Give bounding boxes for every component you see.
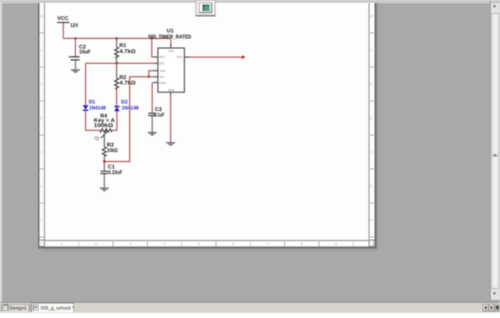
svg-text:C: C xyxy=(40,48,43,52)
pin stub RST xyxy=(153,56,158,58)
right border zone ticks xyxy=(369,33,374,237)
svg-text:CON: CON xyxy=(159,81,166,85)
node C2 top junction xyxy=(74,37,76,39)
sheet outer shadow/edges xyxy=(38,0,376,248)
svg-text:3: 3 xyxy=(129,242,131,246)
ground (C2) xyxy=(71,70,80,74)
svg-text:H: H xyxy=(370,218,373,222)
node R1 top junction xyxy=(115,37,117,39)
svg-text:8: 8 xyxy=(301,242,303,246)
node OUT arrow end xyxy=(242,55,245,59)
svg-text:100kΩ: 100kΩ xyxy=(94,123,114,129)
bottom border zone dividers xyxy=(79,240,353,246)
sheet paper xyxy=(39,0,374,246)
window top strip xyxy=(0,0,500,3)
node RST junction xyxy=(151,37,153,39)
pin stub THR xyxy=(153,70,158,72)
pin stub CON xyxy=(153,82,158,84)
wire VCC pin xyxy=(170,38,172,43)
left border zone letters xyxy=(40,14,43,222)
wire TRI net: THR jog xyxy=(149,71,153,77)
svg-text:9: 9 xyxy=(335,242,337,246)
svg-text:TRI: TRI xyxy=(159,75,164,79)
svg-text:D: D xyxy=(370,82,373,86)
pin stub OUT xyxy=(184,56,190,58)
wire CON to C3 xyxy=(151,83,153,114)
svg-text:555_g_schock *: 555_g_schock * xyxy=(41,306,75,311)
capacitor C1 xyxy=(101,162,123,188)
tab Design1 xyxy=(1,304,29,311)
resistor R2 xyxy=(115,63,137,89)
svg-text:10uF: 10uF xyxy=(79,49,91,55)
svg-text:10kΩ: 10kΩ xyxy=(107,148,118,154)
wire C2 stub xyxy=(74,38,76,56)
node DIS/R1/R2 junction xyxy=(115,62,117,64)
svg-text:H: H xyxy=(40,218,43,222)
svg-text:0.22uF: 0.22uF xyxy=(108,170,123,176)
wire DIS horizontal xyxy=(86,62,153,64)
svg-text:2: 2 xyxy=(95,242,97,246)
svg-text:0.1uF: 0.1uF xyxy=(154,112,165,118)
capacitor C3 xyxy=(148,107,165,132)
resistor R3 xyxy=(102,143,118,162)
floating toolbar icon button xyxy=(196,0,216,16)
svg-text:Design1: Design1 xyxy=(10,306,28,311)
node R3/C1 junction xyxy=(103,160,105,162)
pin stub VCC (top) xyxy=(170,44,172,49)
window left edge xyxy=(0,0,2,313)
wire TRI horizontal and down xyxy=(104,77,153,162)
wire R2 to D2 xyxy=(116,89,118,106)
ground (C3) xyxy=(148,133,157,137)
pin labels U1 xyxy=(159,49,183,92)
tab nav buttons xyxy=(483,304,500,311)
svg-text:G: G xyxy=(370,184,373,188)
ground (U1 GND) xyxy=(166,143,175,147)
op-amp style IC U1 555 timer box xyxy=(148,29,191,93)
wire OUT xyxy=(190,56,243,58)
svg-text:VCC: VCC xyxy=(168,49,175,53)
wire D2 anode to pot right xyxy=(112,111,117,130)
svg-text:RST: RST xyxy=(159,55,165,59)
resistor R1 xyxy=(115,38,137,63)
wire D1 anode vertical xyxy=(85,63,87,105)
svg-text:1: 1 xyxy=(61,242,63,246)
svg-text:+: + xyxy=(68,54,71,59)
svg-text:4.7kΩ: 4.7kΩ xyxy=(119,81,136,87)
diode D1 1N4148 xyxy=(83,99,106,111)
right border zone letters xyxy=(370,14,373,222)
svg-text:555_TIMER_RATED: 555_TIMER_RATED xyxy=(148,34,191,40)
sheet inner border lines xyxy=(43,3,46,247)
bottom border zone numbers xyxy=(61,242,337,246)
svg-text:D: D xyxy=(40,82,43,86)
wire D1 cathode to pot left xyxy=(86,110,100,130)
pin stub DIS xyxy=(153,62,158,64)
svg-text:4.7kΩ: 4.7kΩ xyxy=(119,49,136,55)
svg-text:5: 5 xyxy=(198,242,200,246)
vertical scrollbar xyxy=(490,0,500,301)
svg-text:6: 6 xyxy=(232,242,234,246)
wire RST drop xyxy=(152,38,153,57)
svg-text:12V: 12V xyxy=(70,23,78,29)
left border zone ticks xyxy=(39,33,44,237)
potentiometer R4 xyxy=(94,113,115,147)
wire VCC vertical xyxy=(62,23,64,38)
wire GND pin down xyxy=(170,96,172,142)
pin stub TRI xyxy=(153,76,158,78)
svg-text:1N4148: 1N4148 xyxy=(89,105,106,111)
tab 555_g_schock (active) xyxy=(31,303,74,312)
svg-text:C: C xyxy=(370,48,373,52)
svg-text:VCC: VCC xyxy=(57,16,68,22)
svg-text:4: 4 xyxy=(164,242,166,246)
wire VCC top horizontal xyxy=(63,37,171,39)
pin stub GND xyxy=(170,92,172,96)
ground (C1) xyxy=(100,188,109,192)
diode D2 1N4148 xyxy=(114,99,139,111)
svg-text:GND: GND xyxy=(168,88,176,92)
VCC power symbol xyxy=(57,16,79,29)
window top strip over sheet xyxy=(0,0,500,3)
svg-text:DIS: DIS xyxy=(159,62,164,66)
svg-text:7: 7 xyxy=(266,242,268,246)
svg-text:OUT: OUT xyxy=(177,55,184,59)
svg-text:G: G xyxy=(40,184,43,188)
capacitor C2 xyxy=(68,44,91,69)
node THR/TRI junction xyxy=(148,76,150,78)
svg-text:THR: THR xyxy=(159,69,166,73)
bottom border corner boxes xyxy=(39,240,44,246)
bottom tab bar xyxy=(0,302,500,313)
